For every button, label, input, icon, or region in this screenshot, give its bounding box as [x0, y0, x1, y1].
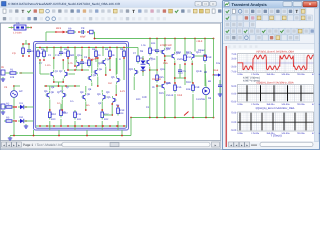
junction	[149, 69, 151, 71]
wire	[194, 39, 196, 52]
svg-text:D1: D1	[20, 102, 24, 105]
junction	[39, 59, 41, 61]
svg-text:350.00u: 350.00u	[266, 73, 275, 76]
capacitor C3	[80, 60, 84, 66]
wire	[174, 39, 176, 52]
transistor Q1	[49, 70, 53, 78]
svg-text:525.00u: 525.00u	[282, 103, 291, 106]
wire	[58, 82, 60, 86]
wire	[68, 69, 75, 71]
junction	[88, 47, 90, 49]
wire	[36, 47, 127, 49]
junction	[204, 55, 206, 57]
junction	[174, 38, 176, 40]
svg-text:+36.9: +36.9	[196, 40, 203, 43]
junction	[116, 47, 118, 49]
wire	[95, 58, 97, 62]
junction	[142, 71, 144, 73]
svg-text:8R: 8R	[208, 80, 211, 83]
junction	[22, 55, 24, 57]
wire	[9, 27, 15, 29]
wire	[88, 49, 90, 58]
wire	[13, 103, 15, 120]
svg-text:8R: 8R	[204, 71, 207, 74]
transistor Q6	[45, 91, 49, 99]
junction	[87, 31, 89, 33]
wire	[49, 121, 51, 130]
wire	[142, 71, 144, 77]
svg-text:C6: C6	[183, 70, 187, 73]
svg-text:-7.00: -7.00	[231, 70, 237, 73]
wire	[23, 43, 29, 45]
wire	[123, 58, 125, 80]
junction	[39, 47, 41, 49]
svg-text:R14: R14	[151, 42, 156, 45]
junction	[156, 69, 158, 71]
svg-text:10u: 10u	[216, 62, 221, 65]
junction	[105, 74, 107, 76]
junction	[46, 125, 48, 127]
transistor Q3	[87, 74, 91, 82]
resistor R3	[4, 120, 14, 122]
wire	[130, 118, 132, 136]
svg-text:49pF: 49pF	[80, 36, 86, 39]
junction	[67, 125, 69, 127]
svg-text:-5.00: -5.00	[231, 129, 237, 132]
junction	[46, 47, 48, 49]
svg-text:2.4k: 2.4k	[55, 54, 60, 57]
wire	[36, 125, 127, 127]
wire	[13, 86, 15, 91]
resistor	[22, 46, 25, 56]
wire	[137, 48, 139, 55]
wire	[40, 73, 49, 75]
transistor Q8	[81, 93, 85, 101]
junction	[194, 38, 196, 40]
junction	[101, 109, 103, 111]
junction	[213, 74, 215, 76]
svg-text:Transient Analysis: Transient Analysis	[232, 2, 268, 7]
wire	[75, 69, 77, 71]
junction	[25, 106, 27, 108]
wire	[205, 95, 207, 118]
junction	[74, 125, 76, 127]
junction	[102, 125, 104, 127]
wire	[28, 44, 30, 48]
junction	[204, 38, 206, 40]
transistor Qa	[93, 68, 97, 76]
svg-text:Qa: Qa	[99, 68, 103, 71]
svg-text:Q4b: Q4b	[98, 62, 103, 65]
svg-text:0.18: 0.18	[177, 94, 183, 97]
svg-text:R2: R2	[6, 102, 10, 105]
svg-text:3m: 3m	[86, 104, 89, 107]
resistor R15	[156, 73, 159, 83]
junction	[97, 85, 99, 87]
wire	[24, 120, 33, 122]
junction	[95, 57, 97, 59]
junction	[213, 117, 215, 119]
junction	[30, 27, 32, 29]
wire	[105, 67, 107, 76]
wire	[61, 86, 63, 91]
svg-text:C:\MC6 DATA\Petrov\Head\AMP-K2: C:\MC6 DATA\Petrov\Head\AMP-K237UD2_Necb…	[8, 2, 121, 6]
source V3	[1, 104, 5, 109]
svg-text:-5.00: -5.00	[231, 100, 237, 103]
svg-text:T: T	[132, 9, 135, 14]
svg-text:680: 680	[70, 54, 75, 57]
junction	[58, 85, 60, 87]
svg-text:Vout: Vout	[213, 69, 218, 72]
svg-text:Q13: Q13	[176, 51, 181, 54]
wire	[165, 55, 171, 57]
junction	[13, 120, 15, 122]
svg-text:Q14b: Q14b	[196, 70, 203, 73]
transistor Qb	[113, 96, 117, 104]
junction	[33, 135, 35, 137]
junction	[39, 125, 41, 127]
svg-text:T: T	[22, 9, 25, 14]
resistor R13	[117, 106, 120, 116]
junction	[53, 47, 55, 49]
junction	[88, 125, 90, 127]
svg-text:Q14: Q14	[196, 51, 201, 54]
wire	[157, 85, 160, 87]
svg-text:I(Q4)(A)_Bon=0.5A/10kHz_OBA: I(Q4)(A)_Bon=0.5A/10kHz_OBA	[256, 81, 294, 84]
svg-text:R10: R10	[51, 113, 56, 116]
svg-text:27p: 27p	[12, 52, 17, 55]
wire	[179, 64, 181, 68]
svg-text:D2: D2	[20, 116, 24, 119]
wire	[179, 74, 181, 78]
wire	[22, 44, 24, 46]
resistor R10	[49, 110, 52, 120]
junction	[55, 31, 57, 33]
svg-text:700.00u: 700.00u	[297, 132, 306, 135]
svg-text:0.5m: 0.5m	[90, 58, 95, 61]
svg-text:1N4148: 1N4148	[152, 78, 161, 81]
junction	[101, 125, 103, 127]
wire	[164, 91, 166, 118]
junction	[174, 82, 176, 84]
junction	[67, 47, 69, 49]
wire	[156, 56, 158, 73]
transistor Q7	[63, 91, 67, 99]
junction	[49, 109, 51, 111]
junction	[53, 125, 55, 127]
svg-text:R12: R12	[104, 118, 109, 121]
selected plot bar	[225, 46, 227, 147]
wire	[5, 72, 10, 74]
resistor R11	[74, 110, 77, 120]
wire	[204, 64, 206, 86]
junction	[78, 31, 80, 33]
svg-text:525.00u: 525.00u	[282, 73, 291, 76]
wire	[142, 56, 144, 60]
junction	[81, 47, 83, 49]
diode D3	[141, 61, 146, 65]
resistor	[95, 49, 98, 59]
svg-text:49.9: 49.9	[56, 27, 62, 30]
diode D8	[202, 87, 209, 94]
resistor R2	[4, 106, 14, 108]
wire	[86, 130, 88, 136]
junction	[58, 135, 60, 137]
wire	[62, 79, 64, 83]
svg-text:R22: R22	[63, 112, 68, 115]
wire	[133, 77, 135, 91]
junction	[156, 38, 158, 40]
resistor R18	[192, 83, 195, 93]
capacitor	[27, 48, 31, 54]
wire	[49, 100, 51, 111]
wire	[149, 39, 151, 49]
wire	[192, 94, 194, 118]
svg-text:700.00u: 700.00u	[297, 73, 306, 76]
wire	[46, 48, 48, 53]
wire	[60, 48, 62, 51]
junction	[164, 38, 166, 40]
wire	[26, 27, 31, 29]
junction	[49, 125, 51, 127]
ground	[8, 136, 12, 140]
junction	[156, 85, 158, 87]
x axis	[238, 92, 314, 94]
svg-text:R18: R18	[195, 86, 200, 89]
x axis	[238, 121, 314, 123]
svg-text:C9: C9	[81, 27, 85, 30]
svg-text:R19: R19	[207, 56, 212, 59]
svg-text:R3: R3	[6, 116, 10, 119]
junction	[15, 106, 17, 108]
wire	[127, 47, 138, 49]
ground	[218, 92, 222, 96]
junction	[109, 69, 111, 71]
junction	[15, 120, 17, 122]
resistor	[67, 49, 70, 59]
junction	[22, 43, 24, 45]
wire	[149, 67, 151, 118]
wire	[219, 80, 221, 83]
svg-text:R1: R1	[10, 68, 14, 71]
wire	[196, 55, 205, 57]
svg-text:\ Text \ Models \ Info /: \ Text \ Models \ Info /	[35, 143, 65, 147]
svg-text:5.00: 5.00	[231, 85, 236, 88]
wire	[204, 39, 206, 54]
junction	[111, 103, 113, 105]
transistor Q4	[101, 58, 105, 66]
selection rectangle	[34, 42, 129, 131]
junction	[74, 47, 76, 49]
resistor	[88, 58, 91, 68]
wire	[44, 85, 80, 87]
junction	[115, 94, 117, 96]
svg-text:R11: R11	[77, 118, 82, 121]
junction	[81, 59, 83, 61]
junction	[74, 125, 76, 127]
svg-text:R: R	[119, 58, 121, 61]
diode D9	[90, 30, 94, 34]
svg-text:1m: 1m	[57, 102, 60, 105]
junction	[109, 57, 111, 59]
svg-text:Q15: Q15	[166, 82, 171, 85]
svg-text:0.00: 0.00	[231, 93, 236, 96]
junction	[74, 65, 76, 67]
trace I(Q16)	[240, 113, 306, 131]
wire	[60, 119, 62, 126]
junction	[121, 135, 123, 137]
diode D4	[141, 67, 146, 71]
junction	[97, 57, 99, 59]
wire	[24, 106, 33, 108]
junction	[81, 125, 83, 127]
svg-text:R16: R16	[177, 86, 182, 89]
trace V(P3)	[238, 55, 314, 70]
svg-text:R20: R20	[136, 98, 141, 101]
current probe mark	[184, 112, 189, 116]
svg-text:◀: ◀	[3, 144, 5, 147]
wire	[62, 60, 64, 70]
svg-text:AC: AC	[19, 90, 23, 93]
svg-text:-3.00: -3.00	[231, 65, 237, 68]
transistor Q12	[160, 48, 164, 56]
junction	[13, 135, 15, 137]
svg-text:3.00: 3.00	[231, 57, 236, 60]
wire	[75, 56, 77, 60]
junction	[62, 59, 64, 61]
junction	[13, 106, 15, 108]
ground	[1, 110, 5, 114]
junction	[184, 77, 186, 79]
ground	[1, 77, 5, 81]
svg-text:10R: 10R	[142, 96, 147, 99]
svg-text:V(P3)(V)_Bon=0.5A/10kHz_OBA: V(P3)(V)_Bon=0.5A/10kHz_OBA	[256, 50, 294, 53]
junction	[66, 31, 68, 33]
wire	[54, 81, 63, 83]
source arrow I1	[57, 31, 65, 34]
junction	[67, 69, 69, 71]
junction	[164, 55, 166, 57]
junction	[28, 55, 30, 57]
wire	[174, 94, 176, 118]
junction	[86, 135, 88, 137]
wire	[97, 58, 99, 68]
wire	[75, 69, 89, 71]
wire	[13, 121, 15, 136]
junction	[74, 85, 76, 87]
source V2	[1, 70, 5, 75]
svg-text:2SA: 2SA	[163, 62, 168, 65]
junction	[65, 85, 67, 87]
resistor R14	[149, 46, 152, 56]
junction	[62, 81, 64, 83]
svg-text:1k2: 1k2	[108, 82, 113, 85]
svg-text:Page 1: Page 1	[23, 143, 33, 147]
wire	[115, 58, 117, 76]
svg-text:4.7k: 4.7k	[68, 62, 73, 65]
wire	[213, 75, 215, 118]
svg-text:T (Secs): T (Secs)	[270, 134, 281, 138]
junction	[27, 27, 29, 29]
junction	[109, 47, 111, 49]
junction	[61, 109, 63, 111]
svg-text:R18: R18	[186, 88, 191, 91]
wire	[184, 39, 186, 54]
wire	[74, 121, 76, 130]
svg-text:R17: R17	[187, 56, 192, 59]
svg-text:0.00: 0.00	[231, 121, 236, 124]
junction	[20, 72, 22, 74]
wire	[67, 58, 69, 70]
resistor R9	[66, 31, 76, 33]
wire	[131, 117, 214, 119]
svg-text:0.22/5W: 0.22/5W	[196, 98, 206, 101]
svg-text:5.00: 5.00	[231, 111, 236, 114]
svg-text:1.0 10m: 1.0 10m	[13, 31, 22, 34]
svg-text:Q2a: Q2a	[77, 54, 82, 57]
wire	[175, 77, 185, 79]
svg-text:V1: V1	[4, 86, 8, 89]
source V1	[11, 91, 18, 98]
svg-text:R13: R13	[119, 112, 124, 115]
wire	[150, 69, 157, 71]
junction	[192, 117, 194, 119]
resistor R1	[8, 72, 18, 74]
wire	[53, 79, 55, 83]
junction	[11, 27, 13, 29]
junction	[117, 125, 119, 127]
resistor block R0	[14, 25, 26, 30]
resistor R17	[184, 53, 187, 63]
wire	[97, 77, 99, 87]
svg-text:C3: C3	[85, 62, 89, 65]
junction	[123, 125, 125, 127]
junction	[123, 47, 125, 49]
wire	[117, 121, 119, 130]
wire	[61, 100, 63, 111]
transistor Q11	[135, 68, 139, 76]
junction	[184, 38, 186, 40]
junction	[184, 63, 186, 65]
junction	[116, 125, 118, 127]
wire	[91, 60, 93, 74]
svg-text:Q8: Q8	[87, 93, 91, 96]
wire	[53, 58, 55, 70]
wire	[45, 32, 47, 42]
svg-text:350.00u: 350.00u	[266, 103, 275, 106]
junction	[149, 38, 151, 40]
svg-text:T: T	[295, 9, 298, 14]
svg-text:10k: 10k	[10, 76, 15, 79]
svg-text:Q16: Q16	[160, 68, 165, 71]
wire	[156, 39, 158, 49]
svg-text:Q3: Q3	[93, 74, 97, 77]
wire	[39, 60, 41, 74]
junction	[192, 82, 194, 84]
wire	[102, 48, 104, 57]
junction	[53, 81, 55, 83]
junction	[28, 43, 30, 45]
resistor R4	[37, 49, 40, 59]
junction	[45, 85, 47, 87]
svg-text:525.00u: 525.00u	[282, 132, 291, 135]
junction	[111, 114, 113, 116]
wire	[205, 86, 207, 88]
wire	[103, 114, 112, 116]
wire	[25, 40, 27, 44]
wire	[101, 90, 103, 93]
svg-text:Q6: Q6	[51, 91, 55, 94]
